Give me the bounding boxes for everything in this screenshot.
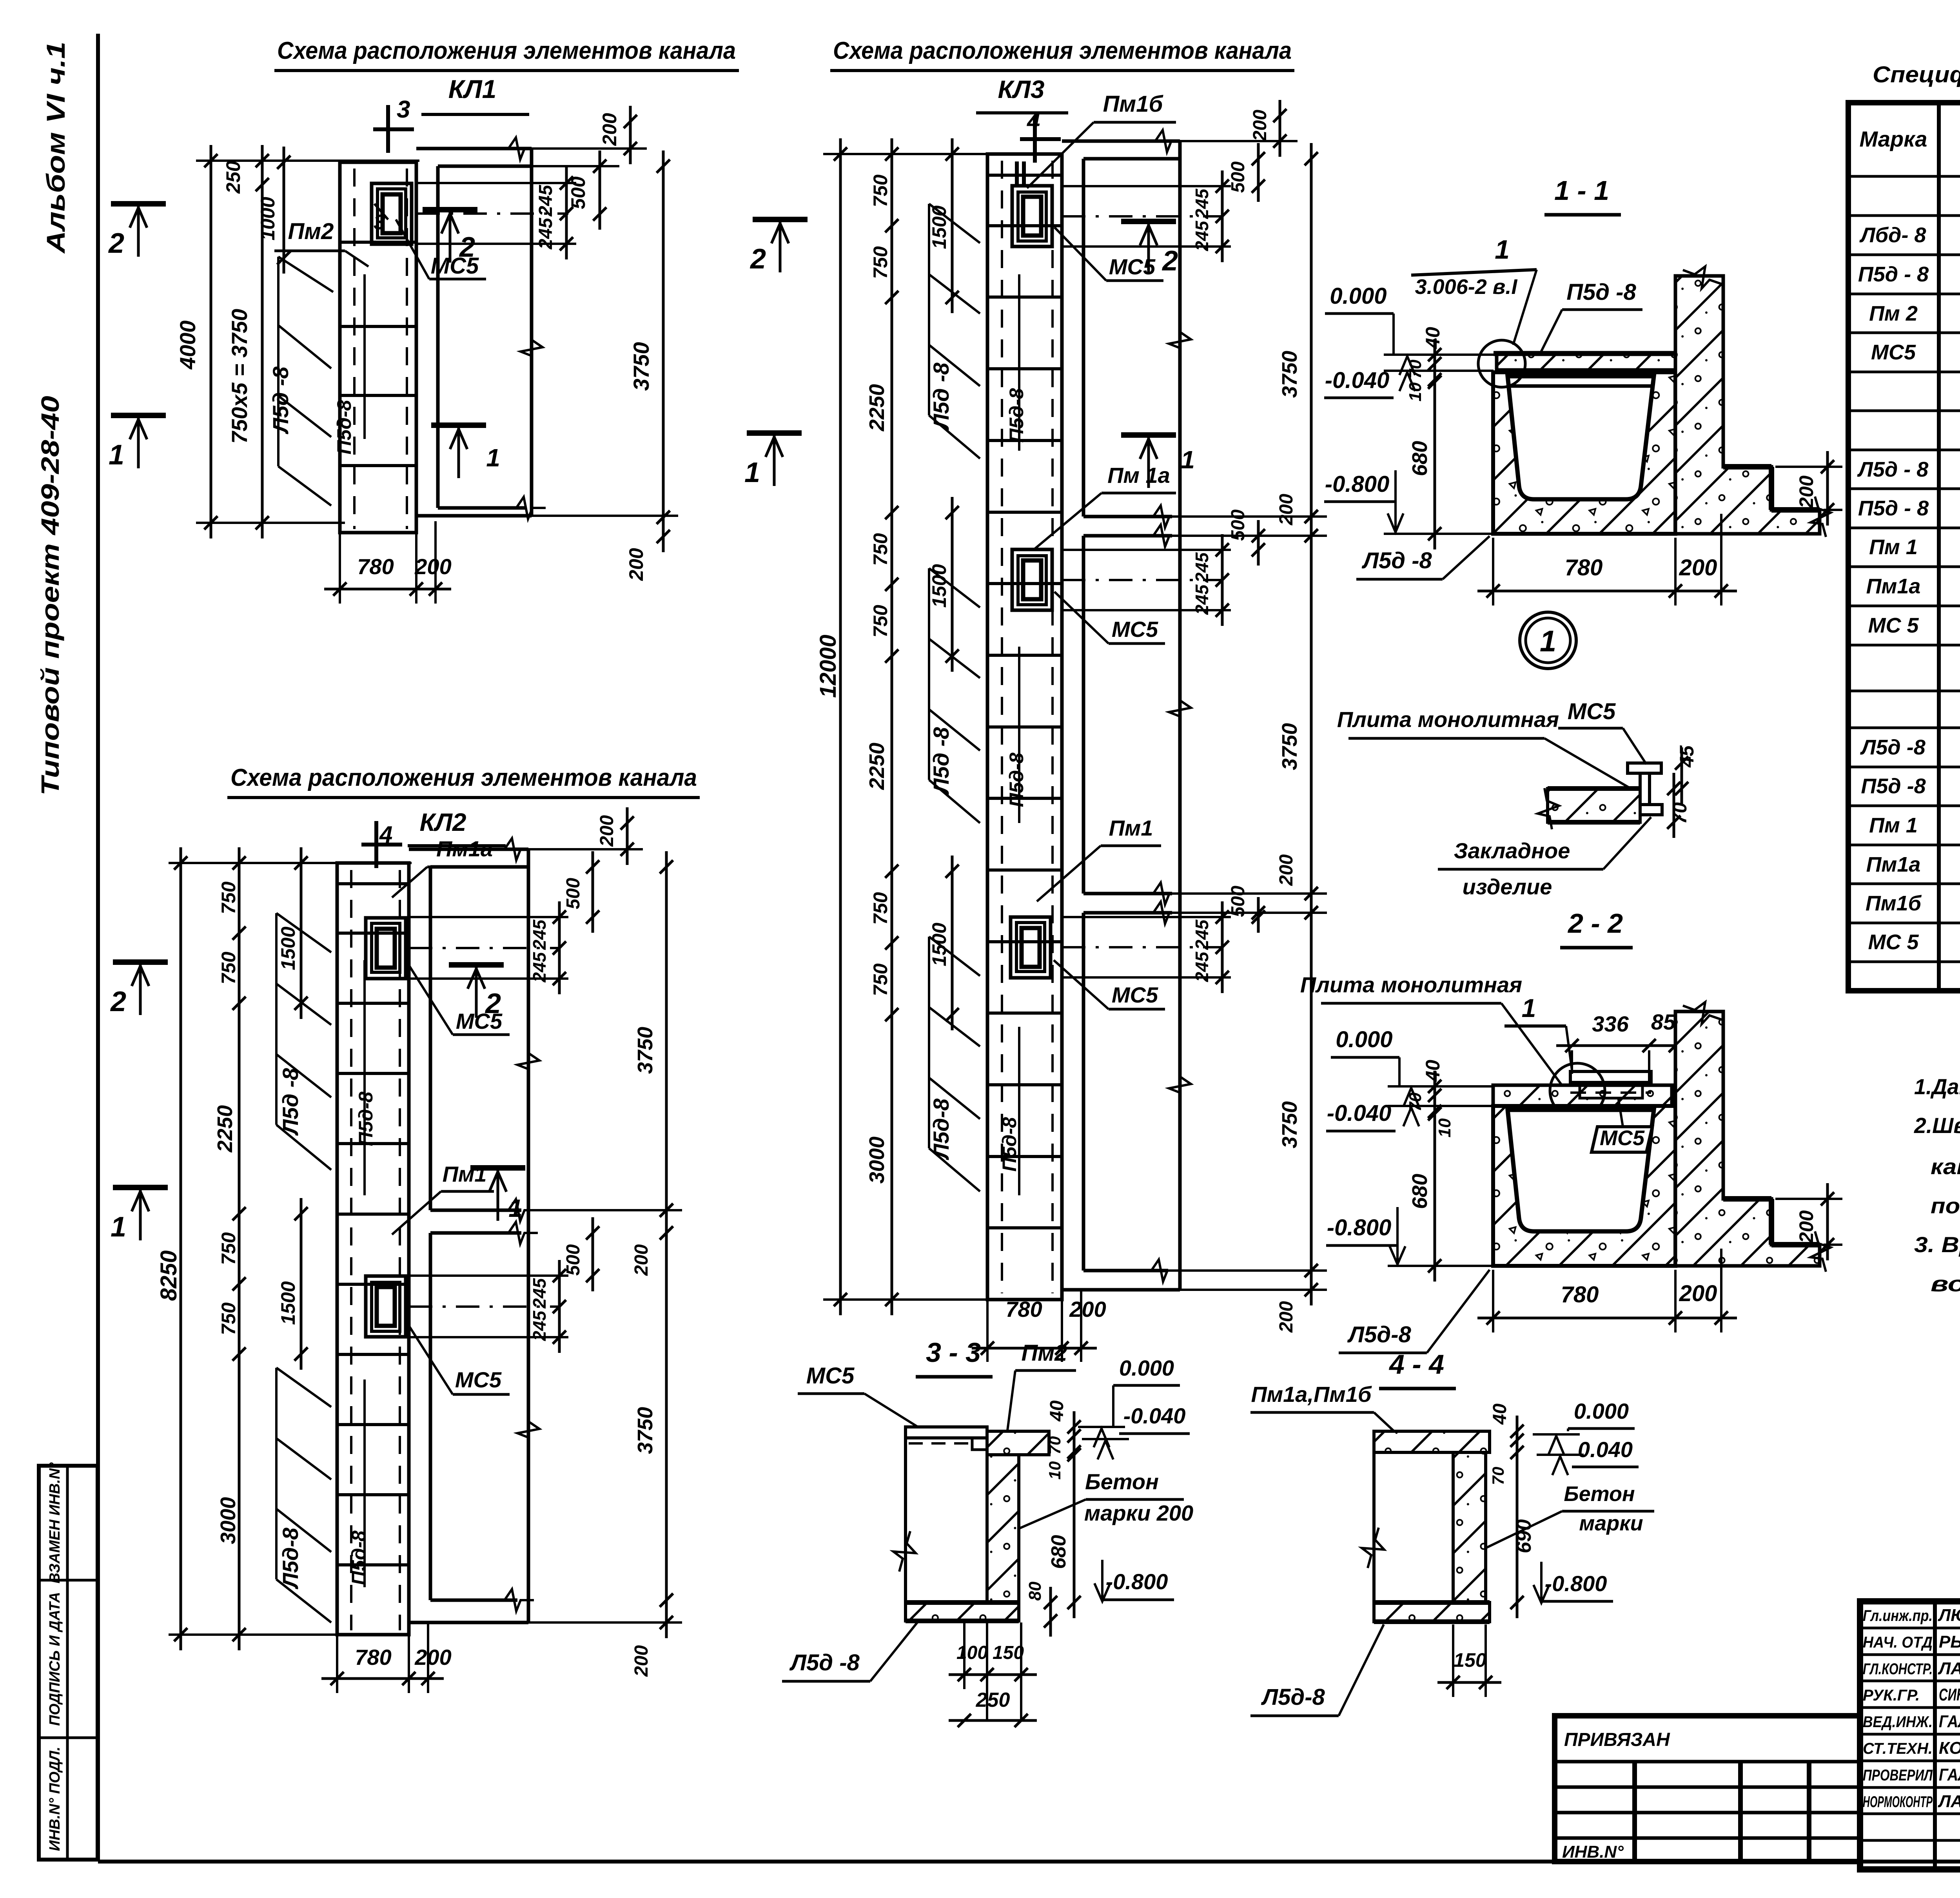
KL2 chamber wall plan — [409, 848, 528, 851]
svg-text:Плита монолитная: Плита монолитная — [1337, 707, 1559, 732]
svg-text:2.Швы между лотками и плита: 2.Швы между лотками и плитами перекрытия — [1914, 1113, 1960, 1138]
svg-text:КОРЫШЕВА: КОРЫШЕВА — [1939, 1738, 1960, 1758]
svg-text:12000: 12000 — [815, 634, 841, 698]
svg-text:245: 245 — [1192, 188, 1212, 219]
sheet frame — [96, 34, 100, 1862]
svg-text:П5д-8: П5д-8 — [998, 1117, 1020, 1171]
svg-text:200: 200 — [1276, 494, 1297, 526]
svg-text:ЛАПКИН: ЛАПКИН — [1938, 1792, 1960, 1811]
svg-text:1 - 1: 1 - 1 — [1554, 175, 1609, 206]
section 1-1 detail circle — [1478, 340, 1525, 387]
svg-text:150: 150 — [1454, 1649, 1486, 1671]
svg-text:750: 750 — [869, 963, 891, 996]
svg-text:3750: 3750 — [1278, 1101, 1301, 1148]
KL3 left dimensions — [823, 153, 992, 155]
svg-text:70: 70 — [1045, 1436, 1064, 1455]
svg-text:780: 780 — [357, 554, 394, 579]
svg-text:Пм1а: Пм1а — [1866, 853, 1921, 876]
KL1 chamber wall plan — [416, 147, 532, 150]
svg-text:3750: 3750 — [1278, 723, 1301, 770]
svg-text:Л5д -8: Л5д -8 — [929, 362, 953, 430]
svg-text:П5д-8: П5д-8 — [333, 400, 355, 454]
KL3 chamber wall plan — [1062, 140, 1180, 143]
svg-text:250: 250 — [976, 1689, 1010, 1711]
svg-text:1: 1 — [109, 439, 124, 471]
svg-text:1: 1 — [1522, 993, 1536, 1022]
svg-text:ГАЛЬПЕРИНА: ГАЛЬПЕРИНА — [1939, 1712, 1960, 1731]
svg-text:МС5: МС5 — [1871, 341, 1916, 364]
svg-text:200: 200 — [414, 1645, 451, 1670]
svg-text:500: 500 — [563, 1244, 584, 1276]
svg-text:Пм 1: Пм 1 — [1869, 814, 1918, 837]
svg-text:245: 245 — [529, 952, 550, 983]
svg-text:3. Временная нормативная н: 3. Временная нормативная нагрузка на пол… — [1914, 1232, 1960, 1257]
svg-text:750: 750 — [218, 1302, 240, 1335]
svg-text:750: 750 — [869, 174, 891, 207]
svg-text:Л5д -8: Л5д -8 — [1860, 736, 1926, 759]
svg-text:2: 2 — [108, 228, 124, 259]
svg-text:Пм1б: Пм1б — [1103, 91, 1164, 117]
svg-text:П5д-8: П5д-8 — [1005, 388, 1027, 442]
svg-text:2 - 2: 2 - 2 — [1567, 908, 1623, 939]
section 2-2 detail circle — [1550, 1063, 1605, 1118]
KL3 element callout leaders — [929, 204, 980, 243]
detail dims 45 / 70 — [1681, 747, 1683, 804]
KL2 section marks — [113, 959, 168, 965]
svg-text:ИНВ.N° ПОДЛ.: ИНВ.N° ПОДЛ. — [47, 1747, 63, 1851]
svg-text:245: 245 — [529, 1278, 550, 1309]
svg-text:П5д -8: П5д -8 — [1566, 279, 1636, 305]
svg-text:2: 2 — [110, 986, 126, 1017]
section 3-3 MC5 plate — [906, 1427, 987, 1438]
svg-text:Л5д - 8: Л5д - 8 — [1857, 458, 1929, 481]
svg-text:Бетон: Бетон — [1564, 1482, 1635, 1506]
KL2 cut mark 4 — [374, 821, 378, 868]
KL1 left dimensions — [196, 160, 419, 162]
KL1 channel strip plan — [340, 162, 416, 533]
svg-text:750: 750 — [218, 1232, 240, 1265]
svg-text:РУК.ГР.: РУК.ГР. — [1863, 1687, 1920, 1704]
KL2 Pm1a plate band at strip top — [337, 882, 409, 885]
KL3 right dimensions — [1062, 185, 1231, 187]
svg-text:750: 750 — [869, 605, 891, 638]
svg-text:-0.800: -0.800 — [1327, 1215, 1391, 1240]
section 3-3 wall — [987, 1455, 1019, 1603]
section 1-1 lotok body — [1493, 372, 1675, 534]
svg-text:4: 4 — [379, 821, 392, 848]
svg-text:МС5: МС5 — [456, 1009, 503, 1033]
svg-text:-0.040: -0.040 — [1327, 1100, 1391, 1126]
svg-text:МС5: МС5 — [1112, 617, 1158, 642]
svg-text:3750: 3750 — [633, 1027, 657, 1074]
svg-text:70: 70 — [1669, 802, 1691, 824]
svg-text:КЛ2: КЛ2 — [420, 808, 466, 836]
svg-text:1500: 1500 — [277, 926, 299, 970]
svg-text:500: 500 — [563, 878, 584, 909]
section 3-3 left channel line — [904, 1438, 907, 1603]
svg-text:80: 80 — [1025, 1581, 1045, 1601]
KL2 bottom dimensions — [336, 1635, 338, 1693]
svg-text:ПРОВЕРИЛ: ПРОВЕРИЛ — [1863, 1767, 1933, 1784]
svg-text:П5д - 8: П5д - 8 — [1858, 263, 1929, 286]
svg-text:НОРМОКОНТР: НОРМОКОНТР — [1863, 1793, 1933, 1811]
svg-text:вокруг камер принята 100: вокруг камер принята 1000 — [1931, 1271, 1960, 1296]
svg-text:200: 200 — [1250, 110, 1270, 141]
svg-text:Альбом VI ч.1: Альбом VI ч.1 — [41, 42, 70, 254]
svg-text:ВЕД.ИНЖ.: ВЕД.ИНЖ. — [1863, 1713, 1933, 1731]
svg-text:Гл.инж.пр.: Гл.инж.пр. — [1863, 1607, 1933, 1624]
section 2-2 MC5 flag — [1592, 1127, 1652, 1152]
KL3 MC5 elements — [1012, 186, 1052, 247]
svg-text:Схема расположения элементов к: Схема расположения элементов канала — [230, 764, 697, 791]
svg-text:-0.040: -0.040 — [1325, 368, 1389, 393]
section 2-2 dims 336 / 85 — [1571, 1050, 1573, 1074]
section 4-4 left line — [1372, 1452, 1376, 1603]
svg-text:Пм2: Пм2 — [288, 219, 334, 244]
svg-text:8250: 8250 — [156, 1250, 181, 1301]
svg-text:Пм2: Пм2 — [1022, 1340, 1067, 1366]
svg-text:Л5д -8: Л5д -8 — [789, 1650, 860, 1675]
svg-text:2250: 2250 — [865, 384, 889, 431]
svg-text:СТ.ТЕХН.: СТ.ТЕХН. — [1863, 1740, 1933, 1757]
svg-text:Спецификация к схемам распол: Спецификация к схемам расположения элеме… — [1873, 62, 1960, 87]
svg-text:1000: 1000 — [257, 197, 279, 240]
svg-text:10: 10 — [1435, 1118, 1454, 1137]
svg-text:0.000: 0.000 — [1574, 1399, 1629, 1423]
section 1-1 left dim stack — [1434, 339, 1436, 549]
section 1-1 building wall and floor — [1675, 276, 1820, 534]
svg-text:1: 1 — [508, 1194, 523, 1222]
svg-text:1: 1 — [744, 457, 760, 488]
svg-text:-0.040: -0.040 — [1123, 1403, 1186, 1428]
svg-text:Л5д-8: Л5д-8 — [929, 1098, 953, 1160]
KL1 element callout leaders — [278, 257, 333, 292]
staff table — [1933, 1601, 1937, 1869]
svg-text:750: 750 — [869, 892, 891, 925]
svg-text:1500: 1500 — [928, 923, 950, 966]
section 3-3 bottom slab — [906, 1603, 1019, 1621]
svg-text:Лбд- 8: Лбд- 8 — [1859, 223, 1926, 247]
svg-text:200: 200 — [1795, 475, 1817, 509]
svg-text:3000: 3000 — [216, 1497, 240, 1544]
KL1 MC5 connection element — [372, 183, 412, 244]
title block outer — [1860, 1601, 1960, 1869]
svg-text:Л5д-8: Л5д-8 — [1347, 1322, 1411, 1347]
svg-text:200: 200 — [1069, 1297, 1106, 1322]
svg-text:690: 690 — [1513, 1519, 1535, 1554]
svg-text:ГЛ.КОНСТР.: ГЛ.КОНСТР. — [1863, 1661, 1933, 1678]
KL1 section marks — [111, 201, 166, 207]
svg-text:1.Данный лист см.совместно: 1.Данный лист см.совместно с листом КЖ4-… — [1914, 1074, 1960, 1099]
svg-text:МС5: МС5 — [455, 1367, 502, 1392]
svg-text:780: 780 — [1565, 555, 1603, 580]
KL1 right dimensions — [416, 182, 576, 184]
svg-text:Пм1а: Пм1а — [1866, 575, 1921, 598]
svg-text:Бетон: Бетон — [1085, 1469, 1159, 1494]
svg-text:марки: марки — [1579, 1512, 1643, 1535]
svg-text:70: 70 — [1406, 1092, 1425, 1111]
svg-text:П5д-8: П5д-8 — [1005, 752, 1027, 807]
svg-text:Л5д -8: Л5д -8 — [268, 366, 293, 434]
svg-text:РЫБКИНА: РЫБКИНА — [1939, 1632, 1960, 1651]
svg-text:3.006-2 в.I: 3.006-2 в.I — [1415, 275, 1518, 299]
node circle 1 — [1520, 612, 1576, 669]
svg-text:2: 2 — [750, 243, 766, 275]
svg-text:245: 245 — [535, 185, 556, 217]
svg-text:4 - 4: 4 - 4 — [1388, 1349, 1444, 1380]
svg-text:1500: 1500 — [928, 205, 950, 249]
section 3-3 bottom dims — [963, 1622, 965, 1689]
svg-text:680: 680 — [1047, 1535, 1070, 1569]
svg-text:Схема расположения элементов к: Схема расположения элементов канала — [833, 37, 1292, 64]
svg-text:200: 200 — [625, 548, 647, 581]
spec table grid — [1848, 103, 1960, 991]
section 2-2 top monolithic slab — [1493, 1085, 1672, 1106]
svg-text:СИНЕЛЬНИКОВА: СИНЕЛЬНИКОВА — [1939, 1685, 1960, 1704]
KL2 channel strip plan — [337, 863, 409, 1635]
svg-text:1: 1 — [111, 1211, 126, 1243]
svg-text:780: 780 — [1561, 1282, 1599, 1307]
svg-text:МС5: МС5 — [1112, 983, 1158, 1007]
svg-text:Плита монолитная: Плита монолитная — [1300, 972, 1522, 997]
svg-text:245: 245 — [535, 218, 556, 250]
svg-text:2250: 2250 — [865, 743, 889, 790]
svg-text:500: 500 — [567, 176, 589, 209]
svg-text:4: 4 — [1027, 108, 1040, 134]
svg-text:МС5: МС5 — [1600, 1126, 1645, 1150]
svg-text:3750: 3750 — [633, 1407, 657, 1454]
svg-text:Типовой проект 409-28-40: Типовой проект 409-28-40 — [36, 396, 64, 796]
svg-text:70: 70 — [1489, 1467, 1507, 1485]
KL1 cut mark 3 — [386, 105, 390, 153]
svg-text:150: 150 — [993, 1642, 1024, 1663]
svg-text:245: 245 — [529, 919, 550, 950]
svg-text:45: 45 — [1676, 745, 1698, 768]
section 4-4 top slab — [1374, 1431, 1490, 1452]
svg-text:П5д - 8: П5д - 8 — [1858, 497, 1929, 520]
svg-text:МС5: МС5 — [1109, 254, 1156, 279]
section 4-4 bottom dim 150 — [1452, 1624, 1454, 1697]
svg-text:200: 200 — [1795, 1210, 1817, 1244]
svg-text:ГАЛЬПЕРННА: ГАЛЬПЕРННА — [1939, 1765, 1960, 1784]
svg-text:ВЗАМЕН ИНВ.N°: ВЗАМЕН ИНВ.N° — [47, 1462, 63, 1584]
svg-text:680: 680 — [1408, 1174, 1432, 1209]
svg-text:0.000: 0.000 — [1330, 283, 1387, 309]
svg-text:200: 200 — [1276, 854, 1297, 886]
svg-text:Пм 1а: Пм 1а — [1107, 463, 1170, 488]
left margin stamp boxes — [39, 1466, 98, 1860]
svg-text:каналов заделать цементным: каналов заделать цементным раствором мар… — [1931, 1154, 1960, 1179]
svg-text:Пм1: Пм1 — [443, 1162, 487, 1186]
svg-text:ЛЮБАВИН: ЛЮБАВИН — [1938, 1606, 1960, 1625]
section 2-2 building wall and floor — [1675, 1012, 1820, 1266]
svg-text:10: 10 — [1406, 382, 1425, 401]
section 2-2 left dim stack — [1434, 1071, 1436, 1282]
svg-text:1: 1 — [1181, 446, 1195, 474]
section 2-2 lotok body — [1493, 1106, 1675, 1266]
svg-text:Пм1б: Пм1б — [1866, 892, 1922, 915]
svg-text:МС 5: МС 5 — [1868, 930, 1919, 954]
section 1-1 right dim 200 — [1775, 466, 1842, 468]
section 4-4 bottom slab — [1374, 1603, 1490, 1622]
KL3 bottom dimensions — [986, 1300, 989, 1362]
svg-text:85: 85 — [1651, 1010, 1676, 1034]
detail slab — [1548, 789, 1640, 822]
svg-text:2: 2 — [1161, 245, 1178, 277]
svg-text:Л5д -8: Л5д -8 — [278, 1068, 303, 1136]
svg-text:40: 40 — [1490, 1403, 1510, 1425]
KL2 right dimensions — [409, 916, 568, 918]
svg-text:200: 200 — [631, 1645, 652, 1677]
svg-text:750х5 = 3750: 750х5 = 3750 — [227, 309, 252, 444]
KL2 MC5 elements — [366, 918, 406, 979]
svg-text:Пм1: Пм1 — [1109, 816, 1153, 840]
svg-text:3: 3 — [397, 96, 410, 123]
svg-text:МС5: МС5 — [806, 1363, 855, 1389]
svg-text:200: 200 — [631, 1244, 652, 1276]
svg-text:250: 250 — [222, 161, 244, 194]
svg-text:1: 1 — [486, 444, 500, 472]
KL3 channel strip plan — [987, 154, 1062, 1300]
svg-text:Пм1а,Пм1б: Пм1а,Пм1б — [1251, 1382, 1372, 1407]
section 1-1 bottom dims — [1492, 538, 1494, 605]
KL3 cut mark 4 — [1033, 116, 1037, 163]
svg-text:500: 500 — [1228, 161, 1249, 193]
KL3 section marks — [753, 217, 808, 222]
svg-text:10: 10 — [1045, 1461, 1064, 1480]
svg-text:П5д-8: П5д-8 — [348, 1530, 370, 1585]
svg-text:Схема расположения элементов к: Схема расположения элементов канала — [277, 37, 736, 64]
svg-text:750: 750 — [869, 533, 891, 566]
svg-text:-0.800: -0.800 — [1106, 1569, 1168, 1594]
svg-text:336: 336 — [1592, 1012, 1629, 1036]
svg-text:200: 200 — [599, 113, 621, 146]
svg-text:200: 200 — [1679, 1281, 1717, 1306]
svg-text:-0.800: -0.800 — [1325, 471, 1389, 497]
svg-text:МС5: МС5 — [431, 253, 479, 279]
svg-text:МС 5: МС 5 — [1868, 614, 1919, 637]
svg-text:3 - 3: 3 - 3 — [926, 1337, 981, 1368]
svg-text:780: 780 — [355, 1645, 391, 1670]
svg-text:Пм 1: Пм 1 — [1869, 535, 1918, 559]
svg-text:Л5д-8: Л5д-8 — [278, 1527, 303, 1590]
svg-text:3000: 3000 — [865, 1137, 889, 1184]
svg-text:1: 1 — [1495, 235, 1510, 265]
svg-text:Марка: Марка — [1860, 127, 1927, 151]
svg-text:марки 200: марки 200 — [1084, 1501, 1193, 1525]
svg-text:-0.800: -0.800 — [1545, 1571, 1607, 1596]
svg-text:245: 245 — [1192, 951, 1212, 982]
svg-text:40: 40 — [1422, 327, 1444, 349]
svg-text:3750: 3750 — [1278, 351, 1301, 398]
svg-text:Л5д -8: Л5д -8 — [929, 727, 953, 795]
svg-text:3750: 3750 — [629, 342, 653, 391]
svg-text:ПОДПИСЬ И ДАТА: ПОДПИСЬ И ДАТА — [47, 1592, 63, 1726]
section 2-2 MC5 embed on slab — [1570, 1071, 1651, 1082]
svg-text:изделие: изделие — [1463, 874, 1552, 899]
svg-text:П5д-8: П5д-8 — [355, 1091, 377, 1146]
section 4-4 right dim stack — [1516, 1416, 1519, 1618]
svg-text:70: 70 — [1406, 359, 1425, 379]
svg-text:750: 750 — [218, 881, 240, 914]
section 1-1 top slab P5d-8 — [1497, 353, 1675, 370]
svg-text:750: 750 — [869, 246, 891, 279]
svg-text:40: 40 — [1047, 1400, 1067, 1422]
KL3 Pm1b plate band at strip top — [987, 174, 1062, 177]
svg-text:0.000: 0.000 — [1336, 1027, 1392, 1052]
svg-text:245: 245 — [1192, 552, 1212, 583]
svg-text:Л5д-8: Л5д-8 — [1261, 1684, 1325, 1710]
svg-text:245: 245 — [1192, 584, 1212, 615]
svg-text:ИНВ.N°: ИНВ.N° — [1562, 1842, 1624, 1862]
KL1 bottom dimensions — [339, 533, 341, 604]
svg-text:МС5: МС5 — [1568, 699, 1616, 724]
svg-text:245: 245 — [529, 1310, 550, 1341]
svg-text:1: 1 — [1540, 625, 1556, 658]
svg-text:Закладное: Закладное — [1454, 838, 1570, 863]
svg-text:Пм 2: Пм 2 — [1869, 302, 1918, 325]
svg-text:750: 750 — [218, 952, 240, 984]
section 2-2 bottom dims — [1492, 1270, 1494, 1332]
svg-text:КЛ3: КЛ3 — [998, 75, 1045, 103]
svg-text:0.040: 0.040 — [1578, 1437, 1633, 1462]
svg-text:НАЧ. ОТД: НАЧ. ОТД — [1863, 1634, 1933, 1651]
svg-text:1500: 1500 — [928, 564, 950, 607]
svg-text:4000: 4000 — [175, 321, 200, 370]
KL2 element callout leaders — [276, 913, 331, 952]
svg-text:1500: 1500 — [277, 1281, 299, 1325]
section 3-3 right dim stack — [1073, 1411, 1076, 1618]
svg-text:0.000: 0.000 — [1119, 1356, 1174, 1380]
svg-text:100: 100 — [956, 1642, 988, 1663]
svg-text:ЛАПКИН: ЛАПКИН — [1938, 1659, 1960, 1678]
svg-text:ПРИВЯЗАН: ПРИВЯЗАН — [1564, 1729, 1670, 1750]
section 3-3 monolithic slab — [987, 1431, 1049, 1455]
svg-text:Л5д -8: Л5д -8 — [1361, 548, 1432, 573]
svg-text:780: 780 — [1005, 1297, 1042, 1322]
svg-text:200: 200 — [597, 815, 617, 847]
section 2-2 right dim 200 — [1775, 1198, 1842, 1200]
svg-text:200: 200 — [1679, 555, 1717, 580]
svg-text:245: 245 — [1192, 220, 1212, 251]
KL2 left dimensions — [169, 862, 412, 864]
svg-text:245: 245 — [1192, 919, 1212, 950]
svg-text:по узлам 4,5,6 серии 3.006: по узлам 4,5,6 серии 3.006-2 в. I лист 4… — [1931, 1193, 1960, 1218]
svg-text:680: 680 — [1408, 441, 1432, 476]
detail embedded Z element — [1628, 763, 1661, 773]
section 4-4 right wall — [1453, 1452, 1486, 1603]
svg-text:40: 40 — [1422, 1060, 1444, 1082]
svg-text:200: 200 — [1276, 1301, 1297, 1333]
privyazan extension block — [1555, 1716, 1860, 1862]
svg-text:КЛ1: КЛ1 — [448, 74, 497, 103]
svg-text:П5д -8: П5д -8 — [1861, 774, 1926, 798]
svg-text:200: 200 — [414, 554, 451, 579]
svg-text:2250: 2250 — [213, 1105, 237, 1153]
